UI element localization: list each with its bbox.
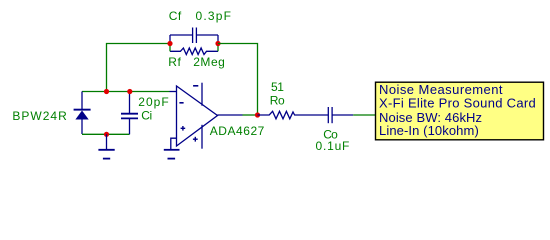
svg-text:0.3pF: 0.3pF (196, 9, 233, 23)
svg-text:Ci: Ci (141, 109, 151, 123)
wire: output node (243, 114, 258, 116)
wire: to sound-card note box (353, 114, 375, 116)
wire: navy stub into op-amp inverting input (170, 91, 177, 93)
op-amp U1 ADA4627 (177, 83, 218, 149)
wire: bottom node horizontal (82, 133, 130, 135)
op-amp non-inverting input label + (181, 126, 186, 131)
wire: inverting-input node horizontal (82, 91, 170, 93)
op-amp positive supply label + (193, 137, 198, 142)
svg-text:Line-In (10kohm): Line-In (10kohm) (379, 123, 479, 138)
svg-text:Ro: Ro (270, 93, 285, 107)
capacitor Co (328, 107, 353, 123)
op-amp triangle body (177, 86, 218, 146)
op-amp negative supply pin (201, 83, 203, 106)
wire: feedback return to output node (218, 44, 258, 116)
node: junction dot right of Rf/Cf (215, 41, 220, 46)
svg-text:Cf: Cf (169, 9, 182, 23)
node: junction dot left of Rf/Cf (167, 41, 172, 46)
node: junction dot at Ci top (127, 89, 132, 94)
node: junction dot at output (255, 112, 260, 117)
ground (photodiode branch) (98, 134, 114, 158)
wire: non-inverting input to ground (171, 138, 177, 149)
svg-text:51: 51 (271, 80, 284, 94)
note box: sound card measurement annotation (376, 82, 544, 140)
wire: feedback top horizontal from node above photodiode to Rf/Cf network (107, 44, 171, 92)
wire: op-amp output lead (218, 114, 243, 116)
svg-text:X-Fi Elite Pro Sound Card: X-Fi Elite Pro Sound Card (379, 96, 536, 111)
node: junction dot at feedback tap on inverting node (104, 89, 109, 94)
svg-text:20pF: 20pF (138, 95, 169, 109)
capacitor Ci (121, 92, 138, 135)
op-amp positive supply pin (201, 125, 203, 149)
svg-text:0.1uF: 0.1uF (316, 139, 351, 153)
op-amp negative supply label - (193, 85, 198, 87)
wire: left vertical of feedback loop (169, 35, 171, 51)
ground (op-amp non-inverting input) (164, 150, 180, 159)
svg-text:2Meg: 2Meg (193, 55, 225, 69)
svg-text:Rf: Rf (168, 55, 181, 69)
svg-text:BPW24R: BPW24R (12, 109, 67, 123)
photodiode D1 BPW24R (74, 92, 91, 135)
resistor Ro (258, 111, 329, 119)
node: junction dot at ground tap (104, 132, 109, 137)
svg-text:ADA4627: ADA4627 (210, 124, 265, 138)
resistor Rf (feedback, bottom branch) (170, 48, 218, 55)
wire: right vertical of feedback loop (217, 35, 219, 51)
op-amp inverting input label - (179, 102, 183, 104)
capacitor Cf (feedback, top branch) (170, 28, 218, 44)
